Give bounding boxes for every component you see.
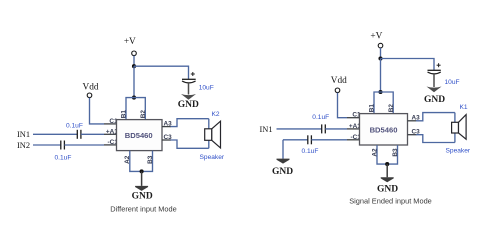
svg-text:GND: GND (272, 167, 293, 177)
wire +V to 10uF cap (right) (381, 59, 435, 70)
wire IN1 to cap (right) (277, 128, 322, 130)
svg-text:IN1: IN1 (17, 130, 30, 139)
svg-text:10uF: 10uF (445, 79, 460, 86)
svg-text:IN2: IN2 (17, 141, 30, 150)
wire bottom pins A2 B3 (130, 151, 153, 172)
svg-text:IN1: IN1 (260, 125, 273, 134)
pin stub C1 (left chip) (104, 123, 117, 125)
svg-text:B3: B3 (392, 148, 399, 157)
capacitor C 10uF (right) (428, 69, 441, 71)
wire IN1 to cap (33, 133, 77, 135)
svg-text:K1: K1 (460, 104, 468, 111)
wire +V stem (133, 56, 135, 67)
svg-text:+V: +V (370, 31, 382, 41)
ground input (right) (277, 159, 290, 164)
wire A3 to speaker K1 (416, 113, 455, 121)
pin stub +A1 (right) (347, 128, 360, 130)
pin stub -C1 (right) (347, 139, 360, 141)
svg-text:Vdd: Vdd (82, 83, 98, 93)
ground bottom (left) (141, 171, 143, 186)
svg-text:BD5460: BD5460 (370, 125, 398, 134)
junction bottom (right) (385, 162, 389, 166)
wire top pins B1 B2 (126, 98, 145, 120)
wire speaker vertical (208, 119, 210, 149)
svg-text:GND: GND (132, 192, 153, 202)
junction bottom (140, 169, 144, 173)
svg-text:B2: B2 (388, 104, 395, 113)
wire A3 to speaker K2 (171, 119, 209, 127)
svg-text:B3: B3 (147, 155, 154, 164)
ground below 10uF (left) (188, 83, 190, 95)
ground bottom (right) (386, 164, 388, 177)
wire +V down to chip top (133, 66, 135, 97)
wire +V stem (right) (380, 48, 382, 59)
svg-text:B1: B1 (121, 110, 128, 119)
wire Vdd to pin C1 (right) (338, 93, 348, 118)
svg-text:BD5460: BD5460 (125, 131, 153, 140)
wire cap to pin C1 lower (64, 144, 104, 146)
svg-text:A2: A2 (124, 155, 131, 164)
capacitor 0.1uF (lower right) (307, 135, 309, 144)
svg-text:A2: A2 (372, 148, 379, 157)
wire +V to 10uF cap (134, 66, 189, 79)
pin stub +A1 (104, 133, 117, 135)
ground below 10uF (right) (433, 74, 435, 87)
op-amp U2 BD5460 (right) (360, 114, 408, 145)
svg-text:GND: GND (424, 95, 445, 105)
svg-text:Speaker: Speaker (446, 147, 471, 154)
pin stub A3 (left chip) (162, 126, 171, 128)
wire IN2 to cap (33, 144, 61, 146)
svg-text:0.1uF: 0.1uF (55, 154, 72, 161)
wire +V down to chip top (right) (380, 59, 382, 93)
pin stub C3 (right chip) (408, 134, 417, 136)
capacitor 0.1uF (IN2) (60, 141, 62, 150)
svg-text:0.1uF: 0.1uF (66, 123, 83, 130)
junction top-left (132, 64, 136, 68)
wire cap to pin A1 (right) (325, 128, 347, 130)
wire top pins B1 B2 (right) (374, 92, 393, 114)
capacitor C 10uF (left) (182, 78, 196, 80)
wire Vdd to pin C1 (90, 98, 105, 124)
svg-text:GND: GND (178, 100, 199, 110)
svg-text:Vdd: Vdd (331, 76, 347, 86)
svg-text:GND: GND (377, 184, 398, 194)
wire -C1 to cap (right) (283, 139, 308, 141)
capacitor 0.1uF (IN1) (76, 130, 78, 139)
svg-text:Different input Mode: Different input Mode (110, 205, 176, 214)
svg-text:K2: K2 (212, 111, 220, 118)
junction top-right (378, 56, 382, 60)
pin stub C3 (left chip) (162, 139, 171, 141)
svg-text:0.1uF: 0.1uF (312, 114, 329, 121)
wire C3 to speaker K2 (171, 140, 209, 148)
pin stub A3 (right chip) (408, 120, 417, 122)
junction at top pins (132, 96, 136, 100)
svg-text:+V: +V (124, 37, 136, 47)
junction at top pins (right) (378, 90, 382, 94)
svg-text:0.1uF: 0.1uF (302, 148, 319, 155)
capacitor 0.1uF (IN1 right) (321, 124, 323, 133)
svg-text:B2: B2 (140, 110, 147, 119)
pin stub -C1 (104, 144, 117, 146)
svg-text:10uF: 10uF (199, 85, 214, 92)
svg-text:Speaker: Speaker (200, 154, 225, 161)
wire C3 to speaker K1 (416, 135, 455, 143)
op-amp U1 BD5460 (left) (117, 120, 163, 151)
wire speaker vertical (right) (454, 113, 456, 143)
wire cap down to ground (right input) (282, 140, 284, 159)
wire cap to pin -C1 (right) (311, 139, 347, 141)
svg-text:Signal Ended input Mode: Signal Ended input Mode (349, 196, 432, 205)
svg-text:B1: B1 (369, 104, 376, 113)
wire cap to pin A1 (81, 133, 104, 135)
wire bottom pins A2 B3 (right) (377, 145, 398, 164)
pin stub C1 (right chip) (347, 117, 360, 119)
